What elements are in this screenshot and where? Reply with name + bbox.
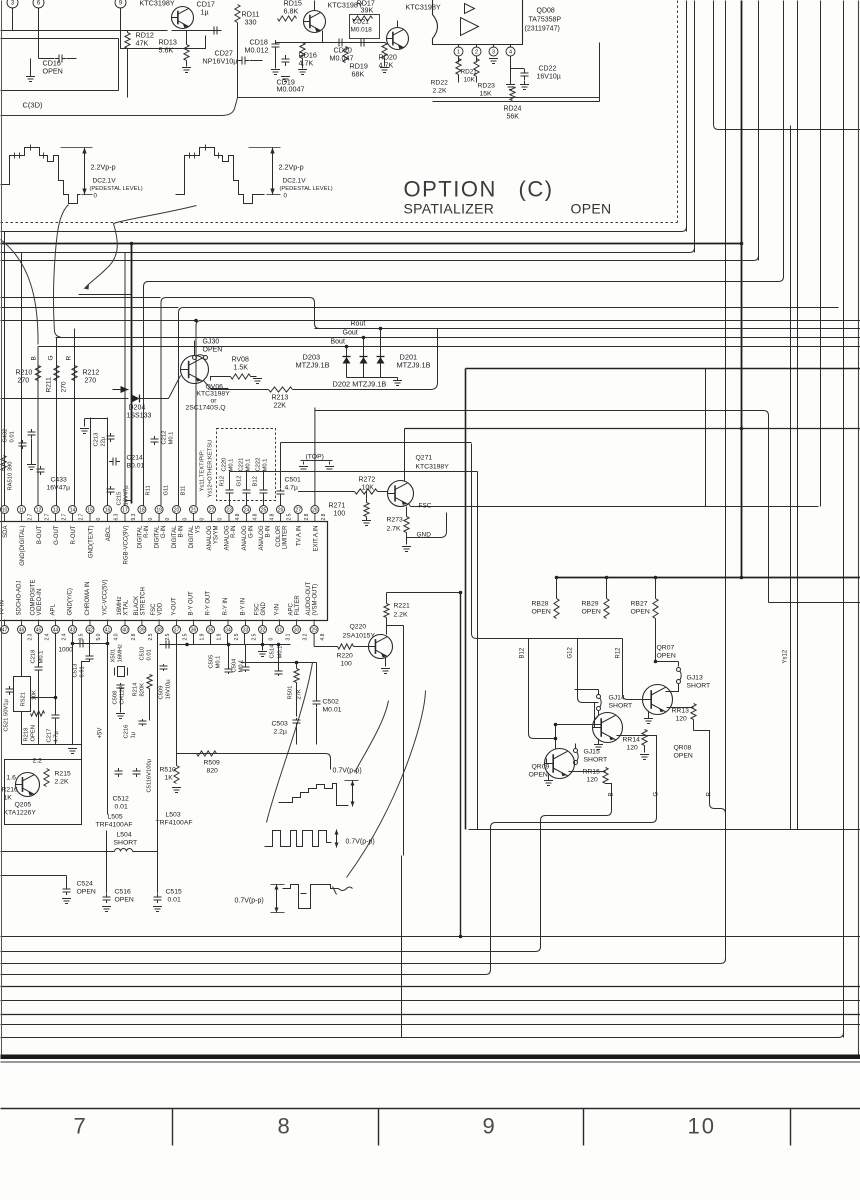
wire C514 v xyxy=(278,645,280,670)
wire CD18 down xyxy=(275,51,277,69)
jumper GJ30 xyxy=(193,355,208,360)
wire C504 v xyxy=(245,645,247,666)
pin 42 bottom xyxy=(86,626,94,634)
pin 36 bottom xyxy=(190,626,198,634)
wire v705 xyxy=(705,369,707,507)
wire h602 xyxy=(769,602,860,604)
resistor R272 10K xyxy=(355,489,378,494)
ground CD22a xyxy=(506,85,515,90)
wire pin1 stub xyxy=(458,45,460,48)
pin 43 bottom xyxy=(69,626,77,634)
wire R12 v xyxy=(623,639,628,700)
wire pin45 down xyxy=(38,633,40,666)
resistor R273 2.7K xyxy=(404,517,409,533)
svg-text:Gout: Gout xyxy=(343,330,358,337)
wire R501 down xyxy=(296,683,298,717)
svg-text:10: 10 xyxy=(688,1114,716,1139)
wire top left h38 xyxy=(1,38,119,40)
svg-text:G: G xyxy=(48,355,55,360)
svg-text:M0.018: M0.018 xyxy=(351,27,373,34)
pin 21 top xyxy=(190,506,198,514)
ground C508 xyxy=(116,714,125,719)
svg-text:7: 7 xyxy=(74,1114,88,1139)
svg-text:16MHz: 16MHz xyxy=(117,596,123,615)
svg-text:1.5K: 1.5K xyxy=(234,365,249,372)
wire h418 left xyxy=(85,418,108,420)
wire C220 down xyxy=(229,472,231,489)
wire R221 top xyxy=(386,593,388,604)
svg-text:1.6: 1.6 xyxy=(7,775,17,782)
wire leader curve a xyxy=(1,240,39,345)
wire pin43 down xyxy=(72,633,74,745)
svg-text:Y-OUT: Y-OUT xyxy=(172,597,178,615)
ground diodes xyxy=(393,381,402,386)
svg-text:R-IN: R-IN xyxy=(144,526,150,538)
svg-text:6.8K: 6.8K xyxy=(284,7,299,16)
wire pin29 to R220 xyxy=(314,646,337,648)
wire R273 gnd wire xyxy=(406,533,408,545)
ground RD16 xyxy=(298,70,307,75)
wire QD05 base xyxy=(371,42,386,44)
svg-text:1K: 1K xyxy=(165,775,174,782)
svg-text:MTZJ9.1B: MTZJ9.1B xyxy=(397,361,431,370)
svg-text:43: 43 xyxy=(70,627,76,633)
wire GJ13 to collector xyxy=(666,684,679,692)
svg-text:B-Y IN: B-Y IN xyxy=(241,598,247,616)
dimension arrow left xyxy=(61,148,93,195)
svg-text:22K: 22K xyxy=(274,403,287,410)
wire pin 11 stub xyxy=(21,514,23,522)
wire staircase R11 xyxy=(144,282,149,506)
svg-text:270: 270 xyxy=(18,378,30,385)
connector pin top a xyxy=(7,0,18,8)
pin 47 bottom xyxy=(1,626,9,634)
svg-text:R11: R11 xyxy=(146,485,152,495)
junction h577 RB28 xyxy=(555,576,559,580)
ground RR14 xyxy=(640,755,649,760)
capacitor C509 xyxy=(160,664,168,671)
svg-text:68K: 68K xyxy=(352,70,365,79)
svg-text:CD22: CD22 xyxy=(539,66,557,73)
wire RB28 top xyxy=(556,578,558,599)
svg-text:SHORT: SHORT xyxy=(584,757,608,764)
pin 25 top xyxy=(260,506,268,514)
svg-text:8: 8 xyxy=(278,1114,292,1139)
svg-text:TA75358P: TA75358P xyxy=(529,17,562,24)
wire mid h1 xyxy=(1,231,682,233)
wire pin41 down xyxy=(107,633,109,815)
wire v471 xyxy=(472,444,477,639)
wire Rout xyxy=(315,328,860,330)
svg-text:31: 31 xyxy=(277,627,283,633)
svg-text:M0.1: M0.1 xyxy=(263,459,269,472)
wire leader curve b xyxy=(53,205,68,338)
resistor RD24 xyxy=(510,87,515,101)
svg-text:C502: C502 xyxy=(323,699,339,706)
svg-text:RB27: RB27 xyxy=(631,601,648,608)
wire pin 39 stub bottom xyxy=(141,620,143,626)
svg-text:R-Y IN: R-Y IN xyxy=(223,598,229,616)
svg-text:0.7V(p-p): 0.7V(p-p) xyxy=(346,839,375,846)
svg-text:17: 17 xyxy=(122,507,128,513)
wire right bus v7 xyxy=(783,1,785,277)
ground CD22b xyxy=(520,85,529,90)
wire bus bottom 960 xyxy=(1,959,726,964)
wire L504 right xyxy=(133,851,158,853)
capacitor C505 xyxy=(225,667,233,674)
resistor RV08 xyxy=(231,374,251,379)
svg-text:10K: 10K xyxy=(32,690,38,700)
wire R out xyxy=(694,731,726,814)
wire sheet border left xyxy=(1,1,3,1059)
resistor R215 2.2K xyxy=(44,769,49,787)
svg-text:B-Y OUT: B-Y OUT xyxy=(189,591,195,616)
wire R501 top stub xyxy=(296,663,298,669)
wire h638 rail xyxy=(477,638,623,640)
pin 16 top xyxy=(104,506,112,514)
svg-text:B0.01: B0.01 xyxy=(127,463,145,470)
svg-text:CD21: CD21 xyxy=(353,19,370,26)
svg-text:C513: C513 xyxy=(73,664,79,678)
wire mid h1 corner xyxy=(682,227,687,232)
capacitor CD17 xyxy=(210,27,221,35)
wire right bus v2 xyxy=(694,1,696,253)
svg-text:L504: L504 xyxy=(117,832,132,839)
wire thick h368 xyxy=(466,368,860,370)
ground QR-R xyxy=(644,719,653,724)
svg-text:22µ: 22µ xyxy=(101,436,107,446)
svg-text:2: 2 xyxy=(475,49,478,55)
capacitor C501 xyxy=(277,489,285,496)
svg-text:B12: B12 xyxy=(253,476,259,486)
svg-text:C505: C505 xyxy=(209,655,215,669)
wire QR-R gnd stub xyxy=(648,711,650,719)
svg-text:Rout: Rout xyxy=(351,321,366,328)
connector pin top c xyxy=(115,0,126,8)
svg-text:4.7µ: 4.7µ xyxy=(285,485,298,492)
capacitor CD21b xyxy=(357,39,368,47)
wire RB29 top xyxy=(606,578,608,599)
svg-text:4.8: 4.8 xyxy=(270,513,276,520)
resistor RD16 xyxy=(300,43,305,59)
svg-text:M0.1: M0.1 xyxy=(216,656,222,669)
wire h297 left xyxy=(1,297,161,299)
svg-text:10K: 10K xyxy=(464,77,476,84)
svg-text:Ys12: Ys12 xyxy=(783,649,789,663)
svg-text:5.0: 5.0 xyxy=(96,633,102,640)
junction h577 RB29 xyxy=(605,576,609,580)
pin 19 top xyxy=(155,506,163,514)
pin 10 top xyxy=(1,506,9,514)
svg-text:2.7: 2.7 xyxy=(28,513,34,520)
jumper GJ14 SHORT xyxy=(597,695,602,711)
wire pin 37 stub bottom xyxy=(176,620,178,626)
wire pin44 low xyxy=(55,720,57,745)
pin 26 top xyxy=(277,506,285,514)
wire pin 42 stub bottom xyxy=(89,620,91,626)
wire G out xyxy=(491,736,657,970)
svg-text:QR09: QR09 xyxy=(532,764,550,771)
resistor R220 100 xyxy=(338,644,354,649)
transistor Q205 KTA1226Y xyxy=(16,773,40,797)
svg-text:B11: B11 xyxy=(181,486,187,496)
wire v403 upper xyxy=(403,626,405,856)
op-amp QD08 triangle xyxy=(461,4,479,36)
svg-text:26: 26 xyxy=(278,507,284,513)
svg-text:0.7V(p-p): 0.7V(p-p) xyxy=(333,768,362,775)
wire h644 rail xyxy=(160,644,291,646)
svg-text:QR07: QR07 xyxy=(657,645,675,652)
svg-text:2.2K: 2.2K xyxy=(55,779,69,786)
svg-text:TV.A.IN: TV.A.IN xyxy=(297,526,303,546)
wire bus bottom 951 xyxy=(1,947,541,952)
wire pin27 to R272 xyxy=(298,491,354,493)
svg-text:SHORT: SHORT xyxy=(687,683,711,690)
svg-text:18: 18 xyxy=(139,507,145,513)
capacitor CD16 xyxy=(55,55,66,63)
wire B12 v xyxy=(529,639,556,739)
capacitor C503 xyxy=(293,718,301,725)
wire pin 46 stub bottom xyxy=(21,620,23,626)
wire connector a stub xyxy=(12,9,14,31)
svg-text:27: 27 xyxy=(295,507,301,513)
svg-text:KTC3198Y: KTC3198Y xyxy=(197,391,231,398)
svg-text:R214: R214 xyxy=(133,682,139,697)
wire Q220 node jog xyxy=(387,625,404,627)
pin 31 bottom xyxy=(276,626,284,634)
wire h753 xyxy=(177,754,331,770)
svg-text:120: 120 xyxy=(587,777,599,784)
svg-text:FILTER: FILTER xyxy=(295,595,301,616)
transistor QD05 KTC3198Y xyxy=(387,28,409,50)
connector pin top b xyxy=(33,0,44,8)
svg-text:M0.1: M0.1 xyxy=(278,646,284,659)
svg-text:820: 820 xyxy=(207,768,219,775)
svg-text:C(3D): C(3D) xyxy=(23,101,44,110)
wire pin16 vertical xyxy=(107,418,109,506)
svg-text:B-OUT: B-OUT xyxy=(37,525,43,544)
svg-text:C215: C215 xyxy=(117,492,123,506)
wire pin 27 stub xyxy=(297,514,299,522)
wire top left h30 xyxy=(1,30,168,32)
crystal X501 xyxy=(115,667,128,677)
wire C513 link xyxy=(82,661,90,767)
resistor RD15 xyxy=(278,16,297,21)
svg-text:DC2.1V: DC2.1V xyxy=(283,178,307,185)
transistor QD03 KTC3198Y xyxy=(304,11,326,33)
wire y chain 2 xyxy=(157,634,159,894)
capacitor C433 xyxy=(37,466,45,475)
wire diode2 v xyxy=(363,338,365,378)
wire RR13 down xyxy=(693,720,695,731)
wire leader wf3 xyxy=(347,691,426,878)
svg-text:D202 MTZJ9.1B: D202 MTZJ9.1B xyxy=(333,380,387,389)
ground R510 xyxy=(172,788,181,793)
svg-text:27K: 27K xyxy=(297,689,303,699)
svg-text:15: 15 xyxy=(87,507,93,513)
svg-text:OPEN: OPEN xyxy=(529,772,548,779)
svg-text:SHORT: SHORT xyxy=(609,703,633,710)
resistor RD22 xyxy=(456,59,461,75)
wire G12 to base xyxy=(594,703,596,728)
capacitor CD27 xyxy=(238,57,249,65)
svg-text:2.2K: 2.2K xyxy=(433,88,447,95)
svg-text:L503: L503 xyxy=(166,812,181,819)
wire pin 26 stub xyxy=(280,514,282,522)
diode D203 MTZJ9.1B xyxy=(343,357,351,364)
waveform left ticks xyxy=(15,145,44,159)
svg-text:OPEN: OPEN xyxy=(115,897,134,904)
resistor R213 22K xyxy=(269,387,293,392)
svg-text:16MHz: 16MHz xyxy=(118,644,124,662)
svg-text:ANALOG: ANALOG xyxy=(259,525,265,550)
wire top q2 emitter xyxy=(322,31,324,43)
wire pin26 up xyxy=(280,443,282,489)
junction Rout diode xyxy=(379,327,383,331)
wire C222 pin xyxy=(263,495,265,506)
waveform sync wf3 xyxy=(283,885,353,909)
wire h643 caps xyxy=(73,643,108,645)
transistor QR chain G xyxy=(593,713,623,743)
svg-text:1.9: 1.9 xyxy=(217,633,223,640)
svg-text:Y-IN: Y-IN xyxy=(275,604,281,615)
capacitor C432 xyxy=(19,440,27,449)
pin 32 bottom xyxy=(259,626,267,634)
wire right bus v4 long xyxy=(725,1,727,961)
ground C524 xyxy=(62,899,71,904)
ground pin3 xyxy=(489,59,498,64)
junction Bout diode xyxy=(345,345,349,349)
wire C524 stub xyxy=(66,876,68,887)
wire QD08 right up xyxy=(599,43,601,102)
svg-text:RD23: RD23 xyxy=(478,83,496,90)
svg-text:0: 0 xyxy=(200,518,206,521)
svg-text:OPEN: OPEN xyxy=(571,201,612,217)
wire mid h3 corner xyxy=(690,248,695,253)
svg-text:C222: C222 xyxy=(256,458,262,472)
wire cap rail h471 xyxy=(230,471,478,473)
svg-text:G-IN: G-IN xyxy=(249,526,255,539)
wire pin 18 stub xyxy=(141,514,143,522)
svg-text:C432: C432 xyxy=(3,429,9,443)
junction QR07 xyxy=(654,660,658,664)
svg-text:120: 120 xyxy=(627,745,639,752)
svg-text:R212: R212 xyxy=(83,370,100,377)
capacitor 1000pF xyxy=(76,640,87,648)
svg-text:3.1: 3.1 xyxy=(286,633,292,640)
svg-text:4.8: 4.8 xyxy=(320,633,326,640)
pin 38 bottom xyxy=(155,626,163,634)
svg-text:B: B xyxy=(609,792,615,796)
ruler tick 2 xyxy=(378,1109,380,1146)
wire R213 right corner xyxy=(293,329,438,390)
svg-text:2.5: 2.5 xyxy=(234,633,240,640)
border thin line xyxy=(1,1061,860,1063)
pin 37 bottom xyxy=(173,626,181,634)
ruler tick 4 xyxy=(790,1109,792,1146)
svg-text:33: 33 xyxy=(243,627,249,633)
resistor RD19 xyxy=(343,47,348,63)
wire RD12 top xyxy=(127,31,129,33)
svg-text:R509: R509 xyxy=(204,760,220,767)
svg-text:28: 28 xyxy=(312,507,318,513)
diode D201 MTZJ9.1B xyxy=(377,357,385,364)
svg-text:16: 16 xyxy=(105,507,111,513)
svg-text:STRETCH: STRETCH xyxy=(140,587,146,615)
ground QR09 xyxy=(544,781,553,786)
capacitor C510c xyxy=(162,641,173,649)
svg-text:C216: C216 xyxy=(124,725,130,739)
wire QR-G gnd stub xyxy=(598,739,600,745)
capacitor CD19 xyxy=(282,55,290,66)
wire pin 10 stub xyxy=(4,514,6,522)
wire thick h577 xyxy=(557,577,860,579)
svg-text:FSC: FSC xyxy=(419,503,432,510)
pin 29 bottom xyxy=(310,626,318,634)
svg-text:C504: C504 xyxy=(232,658,238,673)
wire pin35 stub xyxy=(210,634,212,645)
wire RD13 gnd lead xyxy=(186,61,188,67)
wire pin1 down xyxy=(458,56,460,63)
junction h644 a xyxy=(185,643,189,647)
wire v404 Q271 collector xyxy=(404,429,406,482)
wire diode gnd stub xyxy=(397,378,399,381)
svg-text:M0.012: M0.012 xyxy=(245,46,269,55)
wire B out xyxy=(541,784,612,947)
svg-text:(VSM-OUT): (VSM-OUT) xyxy=(313,584,319,616)
wire thick vertical x465 xyxy=(465,369,467,830)
wire pin33 stub xyxy=(244,634,246,645)
svg-text:(PEDESTAL LEVEL): (PEDESTAL LEVEL) xyxy=(90,186,143,192)
wire R271 top xyxy=(366,492,368,503)
capacitor C212 xyxy=(151,436,159,445)
svg-text:2.5: 2.5 xyxy=(287,513,293,520)
svg-text:TRF4100AF: TRF4100AF xyxy=(156,820,193,827)
wire QR-R emitter xyxy=(667,707,694,709)
svg-text:0.7V(p-p): 0.7V(p-p) xyxy=(235,898,264,905)
svg-text:C503: C503 xyxy=(272,721,288,728)
svg-text:OPEN: OPEN xyxy=(43,67,63,76)
svg-text:9.3: 9.3 xyxy=(131,513,137,520)
wire top q2 collector xyxy=(314,1,316,11)
wire right bus v8 xyxy=(797,1,799,830)
svg-text:270: 270 xyxy=(85,378,97,385)
wire h428 dark xyxy=(405,428,860,430)
svg-text:0.01: 0.01 xyxy=(115,804,128,811)
wire dashed border bottom of OPTION area xyxy=(1,222,678,224)
wire right bus v10 long xyxy=(843,1,845,1038)
pin 34 bottom xyxy=(224,626,232,634)
svg-text:B-IN: B-IN xyxy=(179,526,185,538)
svg-text:RB29: RB29 xyxy=(582,601,599,608)
svg-text:(PEDESTAL LEVEL): (PEDESTAL LEVEL) xyxy=(280,186,333,192)
svg-text:16V47µ: 16V47µ xyxy=(124,485,130,506)
wire leader arrow line xyxy=(86,206,197,288)
svg-text:(23119747): (23119747) xyxy=(525,26,560,33)
pin 11 top xyxy=(18,506,26,514)
wire gnd C213 v xyxy=(84,419,86,427)
wire diode1 v xyxy=(346,347,348,378)
svg-text:10: 10 xyxy=(2,507,8,513)
capacitor C217 xyxy=(52,712,60,721)
resistor R221 2.2K xyxy=(384,604,389,618)
capacitor C216 xyxy=(139,719,147,726)
capacitor C221 xyxy=(243,488,251,495)
capacitor C516 xyxy=(103,894,111,903)
arrowhead leader xyxy=(84,284,90,290)
svg-text:R211: R211 xyxy=(46,377,53,393)
svg-text:G12: G12 xyxy=(237,476,243,487)
